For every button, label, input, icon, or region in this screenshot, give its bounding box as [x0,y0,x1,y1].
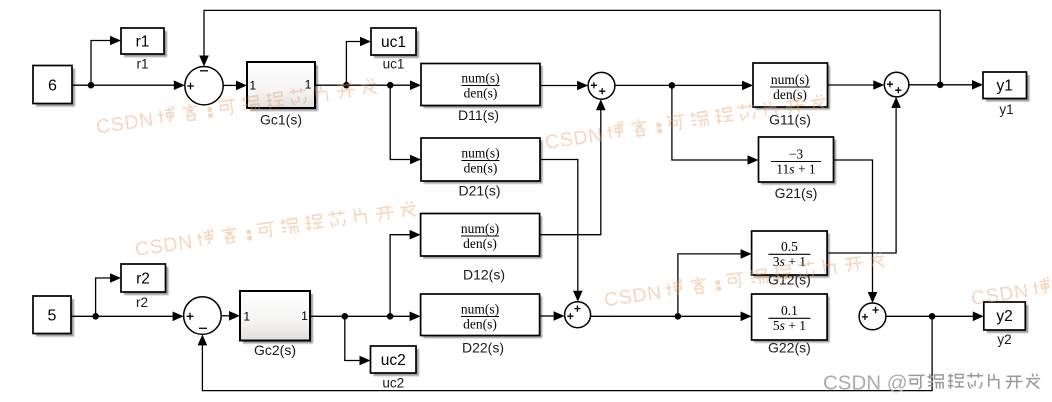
wire S6 to y2 [886,315,974,317]
svg-text:G12(s): G12(s) [768,272,811,288]
junction to D21 [387,82,394,89]
svg-text:Gc1(s): Gc1(s) [260,112,302,128]
svg-text:num(s): num(s) [461,301,499,316]
junction y2 feedback [929,313,936,320]
watermark CSDN 3 [134,200,418,261]
junction to uc1 [343,82,350,89]
sum S1 [185,67,223,105]
block D22(s) [423,297,542,339]
svg-text:den(s): den(s) [464,85,498,100]
block Gc2(s) subsystem [243,294,313,344]
wire branch to D12 [390,235,411,317]
wire 6 to S1 [72,84,174,86]
watermark CSDN 2 [544,93,828,154]
block G11(s) [756,66,831,110]
svg-text:11s + 1: 11s + 1 [776,161,815,176]
wire Gc2 to D22 [310,315,411,317]
svg-text:D22(s): D22(s) [462,340,504,356]
block y1 (To Workspace) [986,75,1030,102]
svg-text:r1: r1 [136,34,150,51]
block uc1 (To Workspace) [374,31,419,58]
wire branch to r2 [96,278,111,316]
wire D22 to S5 [540,315,555,317]
svg-text:r2: r2 [136,271,150,288]
junction y1 feedback [937,82,944,89]
svg-text:num(s): num(s) [461,221,499,236]
svg-text:y1: y1 [999,102,1013,117]
svg-text:6: 6 [48,78,57,95]
svg-text:uc1: uc1 [381,34,406,51]
svg-text:D21(s): D21(s) [458,183,500,199]
wire S3 to G11 [615,84,743,86]
svg-text:r1: r1 [136,57,148,72]
wire y2 feedback to S2 [202,316,932,390]
svg-text:den(s): den(s) [464,160,498,175]
sum S3 [588,72,615,99]
wire branch to G21 [672,85,749,160]
svg-text:1: 1 [243,310,250,324]
watermark CSDN 5 [970,249,1052,310]
sum S2 [184,297,222,335]
junction to D12 [387,313,394,320]
wire D11 to S3 [540,85,579,87]
svg-text:uc2: uc2 [381,352,406,369]
wire 5 to S2 [71,315,174,317]
block Constant 6 [36,69,75,107]
block G22(s) [754,297,830,343]
wire S4 to y1 [909,84,973,86]
wire S2 to Gc2 [221,315,230,317]
wire y1 feedback to S1 [204,10,940,84]
svg-text:Gc2(s): Gc2(s) [254,342,296,358]
svg-text:D12(s): D12(s) [463,267,505,283]
svg-text:y2: y2 [997,332,1011,347]
wire branch to G12 [678,254,742,316]
junction to G12 [675,313,682,320]
junction to uc2 [342,313,349,320]
svg-text:num(s): num(s) [771,72,809,87]
block Constant 5 [36,299,74,337]
svg-text:0.5: 0.5 [781,239,798,254]
junction to G21 [669,82,676,89]
svg-text:5s + 1: 5s + 1 [773,318,806,333]
watermark CSDN 4 [603,250,887,311]
svg-text:y1: y1 [997,78,1013,95]
sum S6 [859,303,886,330]
block G12(s) [754,234,830,278]
wire branch to D21 [390,85,411,159]
block D12(s) [423,216,542,259]
wire D12 to S3 [540,110,601,235]
svg-text:D11(s): D11(s) [458,107,499,123]
sum S5 [565,302,591,328]
block r1 (To Workspace) [124,31,167,57]
svg-text:num(s): num(s) [461,145,499,160]
svg-text:den(s): den(s) [463,236,497,251]
svg-text:5: 5 [48,308,57,325]
wire S1 to Gc1 [223,84,237,86]
svg-text:G21(s): G21(s) [775,185,818,201]
watermark CSDN 1 [95,77,379,138]
svg-text:den(s): den(s) [463,316,497,331]
wire G11 to S4 [828,84,875,86]
block Gc1(s) subsystem [250,65,318,111]
wire Gc1 to D11 [315,84,411,86]
svg-text:uc2: uc2 [382,376,404,391]
junction after 5 [92,313,99,320]
wire branch to r1 [91,41,111,86]
svg-text:num(s): num(s) [461,70,499,85]
block uc2 (To Workspace) [374,349,420,376]
wire branch to uc2 [345,316,361,360]
block r2 (To Workspace) [124,267,169,295]
svg-text:den(s): den(s) [773,87,807,102]
wire G21 to S6 [834,160,873,293]
svg-text:r2: r2 [136,295,148,310]
wire S5 to G22 [591,315,742,317]
svg-text:G22(s): G22(s) [768,340,811,356]
svg-text:y2: y2 [996,308,1012,325]
svg-text:0.1: 0.1 [781,303,798,318]
block y2 (To Workspace) [987,305,1029,333]
wire D21 to S5 [540,160,578,292]
svg-text:−3: −3 [789,146,804,161]
block D21(s) [424,141,543,184]
block D11(s) [424,66,543,108]
wire branch to uc1 [346,42,361,86]
block G21(s) [761,140,836,185]
svg-text:1: 1 [249,79,256,93]
wire G12 to S4 [827,107,896,253]
svg-text:CSDN @: CSDN @ [823,372,908,395]
svg-text:1: 1 [301,309,308,323]
junction after 6 [88,82,95,89]
svg-text:uc1: uc1 [383,57,405,72]
sum S4 [884,72,909,97]
